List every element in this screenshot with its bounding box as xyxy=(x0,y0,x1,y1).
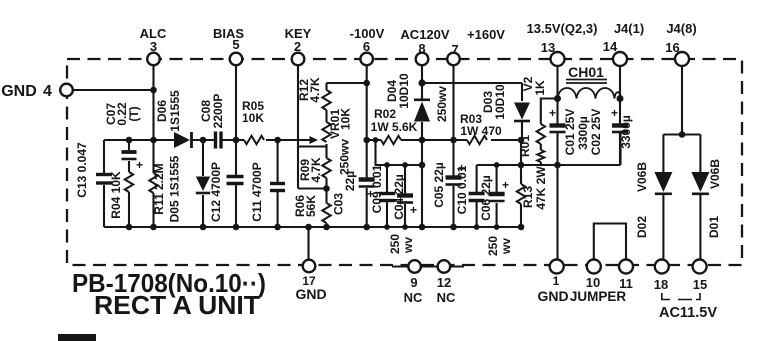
resistor R12 zigzag xyxy=(322,90,330,110)
svg-text:1: 1 xyxy=(553,274,560,288)
svg-text:1S1555: 1S1555 xyxy=(168,90,182,132)
terminal 18 xyxy=(655,260,669,274)
svg-text:10D10: 10D10 xyxy=(493,84,507,120)
svg-text:+: + xyxy=(611,106,618,120)
svg-text:1W 5.6K: 1W 5.6K xyxy=(371,120,418,134)
capacitor C05 22u electrolytic plates xyxy=(446,161,466,185)
terminal 10 xyxy=(587,260,601,274)
svg-text:15: 15 xyxy=(693,277,707,292)
resistor R06 zigzag xyxy=(322,203,330,223)
wire: C09 branch xyxy=(386,165,388,227)
terminal 1 GND xyxy=(550,260,564,274)
terminal 5 BIAS xyxy=(230,53,243,66)
capacitor C04 22u electrolytic plates xyxy=(397,196,417,218)
svg-text:C01 25V: C01 25V xyxy=(563,109,577,156)
svg-text:CH01: CH01 xyxy=(568,64,604,80)
capacitor C08 2200P plates xyxy=(216,132,222,149)
svg-text:BIAS: BIAS xyxy=(213,26,244,41)
wire: R01 1K jog from node 13 xyxy=(541,99,558,166)
svg-text:6: 6 xyxy=(363,39,370,54)
svg-text:D06: D06 xyxy=(155,100,169,122)
svg-text:250wv: 250wv xyxy=(435,86,449,122)
terminal 11 xyxy=(619,260,633,274)
choke CH01 coil xyxy=(558,80,621,99)
terminal 15 xyxy=(693,260,707,274)
svg-text:4.7K: 4.7K xyxy=(308,77,322,103)
svg-text:GND: GND xyxy=(537,288,568,304)
dashed border frame xyxy=(67,59,742,265)
svg-text:47K 2W: 47K 2W xyxy=(534,166,548,210)
svg-text:GND: GND xyxy=(1,83,37,100)
wire: BIAS net vertical (terminal 5 down through C12 to rail) xyxy=(235,65,237,227)
stray scan mark bottom left xyxy=(58,334,96,341)
wire: C10 branch xyxy=(476,165,478,227)
wire: sub-bus y=165 right (C10/C06 to C02 bottom) xyxy=(477,133,621,165)
svg-text:11: 11 xyxy=(619,276,633,291)
wire: D02 branch down to terminal 18 xyxy=(662,135,664,261)
svg-text:R01: R01 xyxy=(518,135,532,157)
svg-text:13.5V(Q2,3): 13.5V(Q2,3) xyxy=(527,21,598,36)
svg-text:C11 4700P: C11 4700P xyxy=(250,162,264,221)
wire: C07/R04 branch vertical xyxy=(128,140,130,227)
svg-text:3300µ: 3300µ xyxy=(576,116,590,150)
terminal 7 +160V xyxy=(447,53,460,66)
diode D04 symbol xyxy=(414,100,430,122)
terminal 12 NC xyxy=(438,260,451,273)
wire: R12 top tie to -100V line xyxy=(327,82,367,84)
svg-text:NC: NC xyxy=(404,290,423,305)
svg-text:3: 3 xyxy=(150,39,157,54)
wire: C11 branch vertical xyxy=(277,140,279,227)
terminal 17 GND bottom xyxy=(303,260,316,273)
wire: AC11.5V bracket under terminals 18 and 15 xyxy=(662,293,700,300)
svg-text:D02: D02 xyxy=(635,216,649,238)
svg-text:J4(8): J4(8) xyxy=(666,21,696,36)
wire: D05 branch vertical xyxy=(202,140,204,227)
capacitor C09 0.01 plates xyxy=(379,194,395,201)
wire: C06 branch xyxy=(496,165,498,227)
wire: D01 branch down to terminal 15 xyxy=(699,135,701,261)
terminal 4 GND left xyxy=(60,84,73,97)
wire: C13 branch vertical xyxy=(103,140,105,227)
svg-text:250: 250 xyxy=(388,234,402,254)
svg-text:+: + xyxy=(549,106,556,120)
svg-text:2200P: 2200P xyxy=(211,94,225,129)
svg-text:C10 0.01: C10 0.01 xyxy=(455,165,469,214)
resistor R03 zigzag xyxy=(467,136,487,144)
svg-text:C03: C03 xyxy=(332,193,346,215)
svg-text:R04 10K: R04 10K xyxy=(109,171,123,219)
wire: bottom component rail y=227 xyxy=(104,226,521,228)
wire: solid link through NC terminals 9 and 12 xyxy=(392,265,464,267)
wire: D03 branch vertical xyxy=(521,83,523,140)
svg-text:10K: 10K xyxy=(339,108,353,130)
svg-text:18: 18 xyxy=(654,277,668,292)
wire: R09 label box edges tying KEY line to R09 node xyxy=(298,147,327,189)
resistor R05 zigzag xyxy=(244,136,264,144)
resistor R13 zigzag xyxy=(517,184,525,204)
svg-text:9: 9 xyxy=(410,275,417,290)
capacitor C07 0.22 plates xyxy=(122,152,144,172)
wire: R12/VR01/R09/R06 vertical string xyxy=(325,83,327,227)
svg-text:V06B: V06B xyxy=(708,159,722,189)
resistor R09 zigzag xyxy=(322,158,330,178)
capacitor C03 22u electrolytic plates xyxy=(359,180,375,202)
resistor R02 zigzag xyxy=(381,136,401,144)
wire: R13 branch x=521 xyxy=(520,140,522,227)
svg-text:C04 22µ: C04 22µ xyxy=(392,174,406,220)
svg-text:12: 12 xyxy=(437,275,451,290)
svg-text:56K: 56K xyxy=(304,195,318,217)
wire: main bus segment B y=140 with breaks for R02 R03 xyxy=(367,139,521,141)
svg-text:13: 13 xyxy=(541,40,555,55)
capacitor C11 4700P plates xyxy=(270,184,285,191)
svg-text:3300µ: 3300µ xyxy=(619,115,633,149)
terminal 8 AC120V xyxy=(416,53,429,66)
wire: ALC net vertical (terminal 3 down through R11 to bottom rail) xyxy=(152,65,154,227)
svg-text:4.7K: 4.7K xyxy=(309,157,323,183)
svg-text:NC: NC xyxy=(437,290,456,305)
svg-text:R13: R13 xyxy=(521,186,535,208)
wire: left cluster top bus y=140 with breaks for D06, C08, R05 and VR01 wiper run xyxy=(104,139,311,141)
svg-text:7: 7 xyxy=(451,42,458,57)
svg-text:C09 0.01: C09 0.01 xyxy=(370,164,384,213)
svg-text:V06B: V06B xyxy=(635,162,649,192)
wire: D04 branch vertical to bus and rail xyxy=(421,83,423,227)
svg-text:JUMPER: JUMPER xyxy=(570,289,627,304)
svg-text:10K: 10K xyxy=(242,111,264,125)
svg-text:AC120V: AC120V xyxy=(400,27,449,42)
wire: GND rail from terminal 4 to ALC line xyxy=(73,89,154,91)
svg-text:C13 0.047: C13 0.047 xyxy=(75,142,89,198)
terminal 6 -100V xyxy=(360,53,373,66)
diode D02 symbol xyxy=(654,172,672,194)
svg-text:1K: 1K xyxy=(533,80,547,96)
svg-text:D05 1S1555: D05 1S1555 xyxy=(168,155,182,222)
resistor R04 zigzag xyxy=(125,172,133,192)
wire: C03 branch vertical xyxy=(366,140,368,227)
svg-text:GND: GND xyxy=(295,286,326,302)
wire: terminal 16 vertical and split to D02/D01 xyxy=(663,65,700,135)
resistor R01 zigzag lower small xyxy=(537,150,544,162)
svg-text:+: + xyxy=(136,158,143,172)
svg-text:R02: R02 xyxy=(374,107,396,121)
svg-text:C06 22µ: C06 22µ xyxy=(479,175,493,221)
terminal 13 xyxy=(551,52,565,66)
svg-text:22µ: 22µ xyxy=(343,171,357,191)
svg-text:8: 8 xyxy=(418,41,425,56)
terminal 9 NC xyxy=(408,260,421,273)
wire: jumper loop between terminals 10 and 11 xyxy=(594,224,626,261)
svg-text:2: 2 xyxy=(294,39,301,54)
capacitor C10 0.01 plates xyxy=(469,194,485,201)
resistor R11 zigzag xyxy=(149,173,157,193)
diode D05 symbol xyxy=(196,177,210,194)
svg-text:10D10: 10D10 xyxy=(397,73,411,109)
svg-text:4: 4 xyxy=(43,83,52,100)
svg-text:16: 16 xyxy=(665,40,679,55)
terminal 2 KEY xyxy=(292,53,305,66)
wire: C04 branch xyxy=(404,165,406,227)
svg-text:(T): (T) xyxy=(127,106,141,121)
wire: 13.5V net vertical with C01 down to GND terminal 1 xyxy=(556,65,558,260)
svg-text:14: 14 xyxy=(603,39,618,54)
terminal 16 xyxy=(675,52,689,66)
capacitor C01 3300u electrolytic plates xyxy=(549,106,566,132)
svg-text:C05 22µ: C05 22µ xyxy=(432,162,446,208)
svg-text:+160V: +160V xyxy=(467,27,505,42)
diode D06 symbol xyxy=(174,132,192,148)
wire: terminal 17 riser from rail xyxy=(307,227,309,260)
terminal 3 ALC xyxy=(147,53,160,66)
capacitor C02 3300u electrolytic plates xyxy=(611,106,628,132)
capacitor C06 22u electrolytic plates xyxy=(489,178,509,201)
potentiometer VR01 zigzag xyxy=(322,122,330,142)
svg-text:J4(1): J4(1) xyxy=(614,21,644,36)
diode D03 symbol xyxy=(514,103,530,122)
wire: -100V net vertical terminal 6 to main bus xyxy=(366,65,368,140)
svg-text:C02 25V: C02 25V xyxy=(589,109,603,156)
svg-text:250: 250 xyxy=(486,236,500,256)
svg-text:250wv: 250wv xyxy=(338,139,352,175)
svg-text:wv: wv xyxy=(499,238,513,255)
resistor R01 1K zigzag upper xyxy=(537,124,545,144)
wire: KEY net vertical (terminal 2 down to wiper bus) xyxy=(297,65,299,189)
svg-text:RECT A UNIT: RECT A UNIT xyxy=(94,290,260,320)
svg-text:D01: D01 xyxy=(707,216,721,238)
wire: AC line y=83 from terminal 8 across to D03 xyxy=(422,65,522,83)
wire: terminal 14 vertical with C02 xyxy=(619,65,621,165)
svg-text:+: + xyxy=(410,203,417,217)
diode D01 symbol xyxy=(691,172,709,194)
wire: +160V net vertical terminal 7 through C05 to rail xyxy=(452,65,454,227)
svg-text:C12 4700P: C12 4700P xyxy=(209,162,223,222)
svg-text:5: 5 xyxy=(232,37,239,52)
svg-text:10: 10 xyxy=(586,275,600,290)
wire: sub-bus y=165 left (C09/C04) xyxy=(376,140,423,165)
capacitor C12 4700P plates xyxy=(227,177,244,184)
capacitor C13 0.047 plates xyxy=(96,175,112,184)
svg-text:1W 470: 1W 470 xyxy=(460,124,502,138)
svg-text:R11 2.2M: R11 2.2M xyxy=(152,163,166,214)
svg-text:+: + xyxy=(502,178,509,192)
terminal 14 xyxy=(613,52,627,66)
svg-text:wv: wv xyxy=(401,237,415,254)
svg-text:AC11.5V: AC11.5V xyxy=(659,305,717,321)
VR01 wiper arrow xyxy=(298,136,318,144)
